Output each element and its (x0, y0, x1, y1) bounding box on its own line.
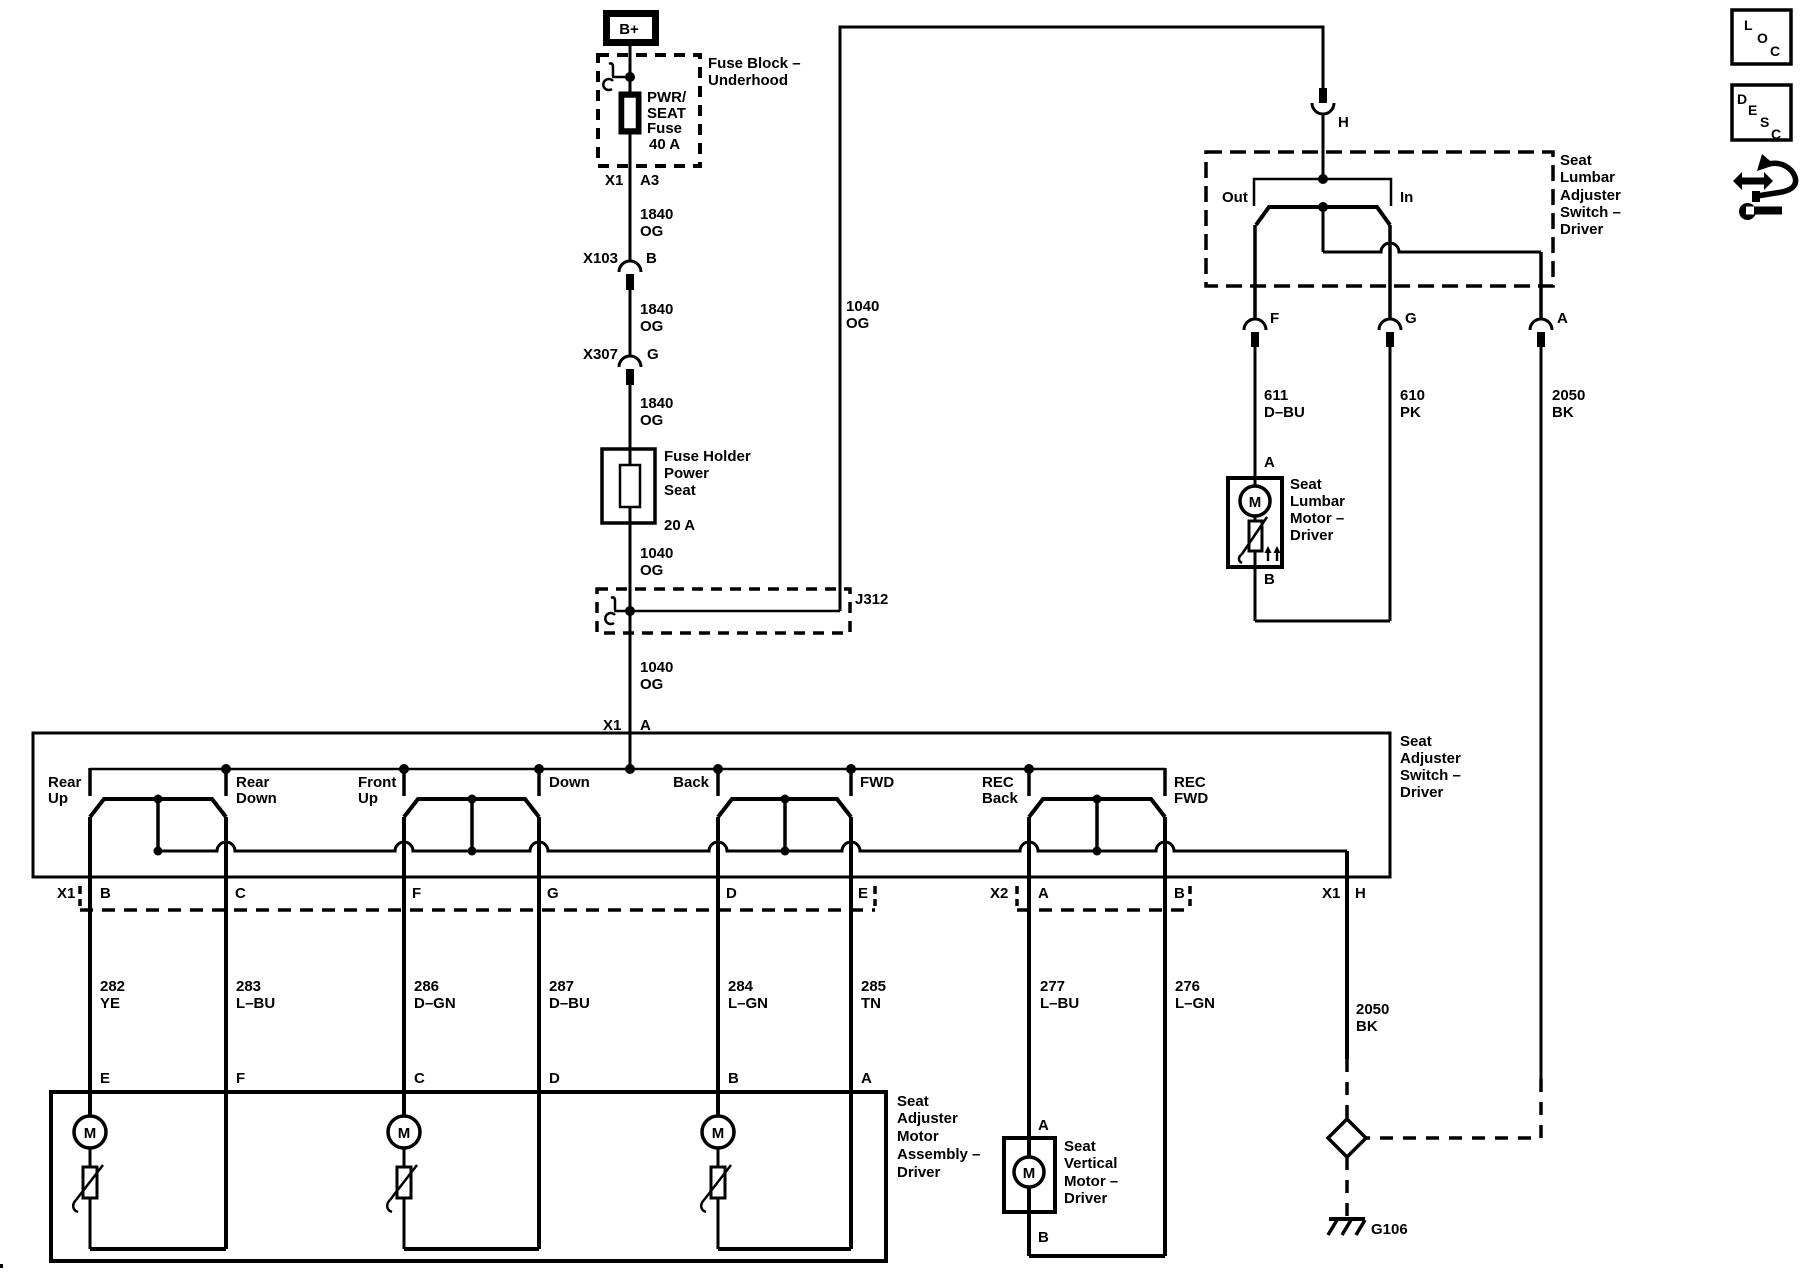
svg-text:H: H (1338, 114, 1349, 131)
svg-text:OG: OG (640, 318, 663, 335)
svg-text:Driver: Driver (1064, 1190, 1108, 1207)
svg-text:X2: X2 (990, 885, 1008, 902)
svg-text:285: 285 (861, 978, 886, 995)
svg-text:D–GN: D–GN (414, 995, 456, 1012)
svg-text:M: M (1249, 494, 1262, 511)
svg-text:B: B (1264, 571, 1275, 588)
svg-text:E: E (1748, 102, 1757, 118)
svg-text:C: C (414, 1070, 425, 1087)
svg-text:Down: Down (236, 790, 277, 807)
svg-text:Motor: Motor (897, 1128, 939, 1145)
svg-text:Seat: Seat (1560, 152, 1592, 169)
svg-text:OG: OG (640, 223, 663, 240)
svg-text:TN: TN (861, 995, 881, 1012)
svg-text:Driver: Driver (1560, 221, 1604, 238)
svg-text:L: L (1744, 17, 1753, 33)
svg-text:Rear: Rear (48, 774, 82, 791)
svg-text:PK: PK (1400, 404, 1421, 421)
svg-text:Back: Back (673, 774, 710, 791)
svg-text:E: E (858, 885, 868, 902)
svg-text:A3: A3 (640, 172, 659, 189)
svg-text:Switch –: Switch – (1560, 204, 1621, 221)
svg-text:D: D (1737, 91, 1747, 107)
svg-text:B: B (1038, 1229, 1049, 1246)
svg-text:Fuse: Fuse (647, 120, 682, 137)
svg-text:In: In (1400, 189, 1413, 206)
svg-text:Driver: Driver (1400, 784, 1444, 801)
svg-text:C: C (1770, 43, 1780, 59)
svg-text:B: B (100, 885, 111, 902)
svg-text:1840: 1840 (640, 395, 673, 412)
svg-text:F: F (412, 885, 421, 902)
svg-text:Out: Out (1222, 189, 1248, 206)
svg-text:B: B (646, 250, 657, 267)
svg-text:A: A (1038, 885, 1049, 902)
svg-text:Lumbar: Lumbar (1560, 169, 1615, 186)
svg-text:1840: 1840 (640, 206, 673, 223)
svg-text:OG: OG (846, 315, 869, 332)
svg-text:Seat: Seat (1064, 1138, 1096, 1155)
svg-text:H: H (1355, 885, 1366, 902)
svg-text:FWD: FWD (860, 774, 894, 791)
svg-text:Vertical: Vertical (1064, 1155, 1117, 1172)
svg-text:286: 286 (414, 978, 439, 995)
svg-text:A: A (861, 1070, 872, 1087)
svg-text:O: O (1757, 30, 1768, 46)
svg-text:40 A: 40 A (649, 136, 680, 153)
svg-text:Assembly –: Assembly – (897, 1146, 980, 1163)
svg-text:B: B (728, 1070, 739, 1087)
svg-text:20 A: 20 A (664, 517, 695, 534)
svg-text:X1: X1 (605, 172, 623, 189)
svg-text:D–BU: D–BU (549, 995, 590, 1012)
svg-text:Fuse Block –: Fuse Block – (708, 55, 801, 72)
svg-text:Motor –: Motor – (1064, 1173, 1118, 1190)
svg-text:610: 610 (1400, 387, 1425, 404)
svg-text:REC: REC (1174, 774, 1206, 791)
svg-text:X307: X307 (583, 346, 618, 363)
svg-text:284: 284 (728, 978, 754, 995)
svg-text:D–BU: D–BU (1264, 404, 1305, 421)
svg-text:B: B (1174, 885, 1185, 902)
svg-text:276: 276 (1175, 978, 1200, 995)
svg-text:M: M (1023, 1165, 1036, 1182)
svg-text:2050: 2050 (1552, 387, 1585, 404)
svg-text:Seat: Seat (1400, 733, 1432, 750)
svg-text:B+: B+ (619, 21, 639, 38)
svg-text:X1: X1 (57, 885, 75, 902)
svg-text:Adjuster: Adjuster (897, 1110, 958, 1127)
svg-text:OG: OG (640, 562, 663, 579)
svg-text:L–BU: L–BU (1040, 995, 1079, 1012)
svg-text:2050: 2050 (1356, 1001, 1389, 1018)
svg-text:Adjuster: Adjuster (1560, 187, 1621, 204)
svg-text:283: 283 (236, 978, 261, 995)
svg-text:X103: X103 (583, 250, 618, 267)
svg-text:Fuse Holder: Fuse Holder (664, 448, 751, 465)
svg-text:OG: OG (640, 412, 663, 429)
svg-text:282: 282 (100, 978, 125, 995)
svg-text:D: D (726, 885, 737, 902)
svg-text:287: 287 (549, 978, 574, 995)
svg-text:1840: 1840 (640, 301, 673, 318)
svg-text:Lumbar: Lumbar (1290, 493, 1345, 510)
svg-text:1040: 1040 (640, 545, 673, 562)
svg-text:A: A (1557, 310, 1568, 327)
svg-text:277: 277 (1040, 978, 1065, 995)
svg-text:L–BU: L–BU (236, 995, 275, 1012)
svg-text:BK: BK (1356, 1018, 1378, 1035)
svg-text:1040: 1040 (846, 298, 879, 315)
svg-text:C: C (235, 885, 246, 902)
svg-text:A: A (1038, 1117, 1049, 1134)
svg-text:FWD: FWD (1174, 790, 1208, 807)
svg-text:E: E (100, 1070, 110, 1087)
svg-text:S: S (1760, 114, 1769, 130)
svg-text:611: 611 (1264, 387, 1288, 404)
svg-text:YE: YE (100, 995, 120, 1012)
svg-text:L–GN: L–GN (728, 995, 768, 1012)
svg-text:C: C (1771, 126, 1781, 142)
svg-text:PWR/: PWR/ (647, 89, 687, 106)
svg-text:Underhood: Underhood (708, 72, 788, 89)
svg-text:OG: OG (640, 676, 663, 693)
svg-text:Seat: Seat (664, 482, 696, 499)
svg-text:Switch –: Switch – (1400, 767, 1461, 784)
svg-text:Seat: Seat (897, 1093, 929, 1110)
svg-text:Motor –: Motor – (1290, 510, 1344, 527)
svg-text:Front: Front (358, 774, 396, 791)
svg-text:Up: Up (48, 790, 68, 807)
svg-text:F: F (236, 1070, 245, 1087)
svg-text:Driver: Driver (897, 1164, 941, 1181)
svg-text:J312: J312 (855, 591, 888, 608)
svg-text:1040: 1040 (640, 659, 673, 676)
svg-text:Rear: Rear (236, 774, 270, 791)
svg-text:X1: X1 (1322, 885, 1340, 902)
svg-text:M: M (398, 1125, 411, 1142)
svg-text:D: D (549, 1070, 560, 1087)
svg-text:Down: Down (549, 774, 590, 791)
svg-text:X1: X1 (603, 717, 621, 734)
svg-text:A: A (1264, 454, 1275, 471)
svg-text:BK: BK (1552, 404, 1574, 421)
svg-text:M: M (84, 1125, 97, 1142)
svg-text:G: G (1405, 310, 1417, 327)
svg-text:G106: G106 (1371, 1221, 1408, 1238)
svg-text:Up: Up (358, 790, 378, 807)
svg-text:Power: Power (664, 465, 709, 482)
svg-text:F: F (1270, 310, 1279, 327)
svg-text:Back: Back (982, 790, 1019, 807)
svg-text:REC: REC (982, 774, 1014, 791)
svg-text:A: A (640, 717, 651, 734)
svg-text:Adjuster: Adjuster (1400, 750, 1461, 767)
svg-text:Seat: Seat (1290, 476, 1322, 493)
svg-text:Driver: Driver (1290, 527, 1334, 544)
svg-text:M: M (712, 1125, 725, 1142)
svg-text:G: G (547, 885, 559, 902)
svg-text:G: G (647, 346, 659, 363)
svg-text:L–GN: L–GN (1175, 995, 1215, 1012)
